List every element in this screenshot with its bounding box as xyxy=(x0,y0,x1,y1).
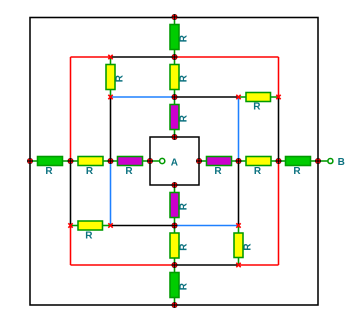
junction cross (70.5,225.5) xyxy=(68,223,72,227)
junction cross (278.5,97) xyxy=(276,95,280,99)
wire black vertical (238.5,161)-(238.5,225.5) xyxy=(238,161,240,226)
svg-text:A: A xyxy=(171,158,178,169)
wire red bottom-left (70.5,265)-(174.5,265) xyxy=(71,264,175,266)
wire outer rectangle xyxy=(30,18,318,306)
junction cross (238.5,97) xyxy=(236,95,240,99)
junction cross (110.5,57) xyxy=(108,55,112,59)
resistor R yellow horizontal top-right (238.5-278.5, 97) leads xyxy=(239,96,247,98)
wire black horizontal (110.5,225.5)-(174.5,225.5) xyxy=(111,225,175,227)
resistor R magenta vertical (174.5, 97-137) leads xyxy=(174,97,176,105)
wire blue vertical (110.5,161)-(110.5,225.5) xyxy=(110,161,112,226)
resistor R magenta vertical (174.5, 185-225.5) leads xyxy=(174,185,176,193)
svg-text:R: R xyxy=(293,166,301,177)
wire black top-mid (110.5,57)-(174.5,57) xyxy=(111,56,175,58)
junction cross (238.5,265) xyxy=(236,263,240,267)
resistor R magenta horizontal (110.5-150, 161) leads xyxy=(111,160,118,162)
resistor R green horizontal left (30-70.5, 161) leads xyxy=(30,160,38,162)
wire green terminal B lead xyxy=(318,160,328,162)
svg-text:R: R xyxy=(85,230,93,241)
resistor R top green leads xyxy=(174,17,176,25)
resistor R yellow vertical (174.5, 225.5-265) leads xyxy=(174,226,176,234)
svg-text:R: R xyxy=(179,34,190,42)
resistor R yellow vertical bottom-right (238.5, 225.5-265) leads xyxy=(238,226,240,234)
resistor R yellow horizontal (238.5-278.5, 161) leads xyxy=(239,160,247,162)
wire blue horizontal (174.5,225.5)-(238.5,225.5) xyxy=(175,225,239,227)
wire red bottom-right (238.5,265)-(278.5,265) xyxy=(239,264,279,266)
node dot (238.5,161) xyxy=(236,158,242,164)
node dot (174.5,225.5) xyxy=(172,223,178,229)
wire green terminal A lead xyxy=(150,160,160,162)
svg-text:R: R xyxy=(179,243,190,251)
resistor R yellow horizontal bottom-left (70.5-110.5, 225.5) leads xyxy=(71,225,79,227)
terminal B circle xyxy=(328,159,333,164)
junction cross (110.5,225.5) xyxy=(108,223,112,227)
terminal A circle xyxy=(160,158,165,163)
resistor R yellow horizontal (70.5-110.5, 161) leads xyxy=(71,160,79,162)
node dot (70.5,161) xyxy=(68,158,74,164)
node dot (174.5,17) xyxy=(172,14,178,20)
resistor R magenta horizontal (199-238.5, 161) leads xyxy=(199,160,207,162)
wire blue vertical (238.5,97)-(238.5,161) xyxy=(238,97,240,161)
svg-text:R: R xyxy=(243,243,254,251)
node dot (278.5,161) xyxy=(276,158,282,164)
node dot (174.5,57) xyxy=(172,54,178,60)
node dot (199,161) xyxy=(196,158,202,164)
resistor R yellow vertical (174.5, 57-97) leads xyxy=(174,57,176,65)
wire red left upper (70.5,57)-(70.5,161) xyxy=(70,57,72,161)
svg-text:R: R xyxy=(125,166,133,177)
node dot (174.5,185) xyxy=(172,182,178,188)
node dot (30,161) xyxy=(27,158,33,164)
wire black horizontal (174.5,97)-(238.5,97) xyxy=(175,96,239,98)
resistor R green vertical top xyxy=(170,25,179,50)
wire red top-right (174.5,57)-(278.5,57) xyxy=(175,56,279,58)
node dot (318,161) xyxy=(315,158,321,164)
svg-text:R: R xyxy=(214,166,222,177)
resistor R yellow vertical top-left (110.5, 57-97) leads xyxy=(110,57,112,65)
node dot (174.5,97) xyxy=(172,94,178,100)
node dot (174.5,305) xyxy=(172,302,178,308)
svg-text:R: R xyxy=(179,282,190,290)
svg-text:R: R xyxy=(254,166,262,177)
wire black right mid (278.5,97)-(278.5,161) xyxy=(278,97,280,161)
node dot (110.5,161) xyxy=(108,158,114,164)
wire black left lower (70.5,161)-(70.5,225.5) xyxy=(70,161,72,226)
wire red right upper (278.5,57)-(278.5,97) xyxy=(278,57,280,97)
square box node A xyxy=(150,137,199,185)
svg-text:R: R xyxy=(45,166,53,177)
junction cross (238.5,225.5) xyxy=(236,223,240,227)
svg-text:R: R xyxy=(179,114,190,122)
wire black vertical (110.5,97)-(110.5,161) xyxy=(110,97,112,161)
resistor R green vertical bottom (174.5, 265-305) leads xyxy=(174,265,176,273)
svg-text:R: R xyxy=(86,166,94,177)
svg-text:R: R xyxy=(253,102,261,113)
svg-text:B: B xyxy=(338,157,345,168)
node dot (150,161) xyxy=(147,158,153,164)
svg-text:R: R xyxy=(179,202,190,210)
wire black bottom-mid (174.5,265)-(238.5,265) xyxy=(175,264,239,266)
wire red right lower (278.5,161)-(278.5,265) xyxy=(278,161,280,265)
svg-text:R: R xyxy=(179,74,190,82)
wire blue horizontal (110.5,97)-(174.5,97) xyxy=(111,96,175,98)
junction cross (110.5,97) xyxy=(108,95,112,99)
resistor R green horizontal right (278.5-318, 161) leads xyxy=(279,160,286,162)
node dot (174.5,265) xyxy=(172,262,178,268)
svg-text:R: R xyxy=(115,74,126,82)
node dot (174.5,137) xyxy=(172,134,178,140)
wire red top-left (70.5,57)-(110.5,57) xyxy=(71,56,111,58)
wire red left bottom (70.5,225.5)-(70.5,265) xyxy=(70,226,72,266)
